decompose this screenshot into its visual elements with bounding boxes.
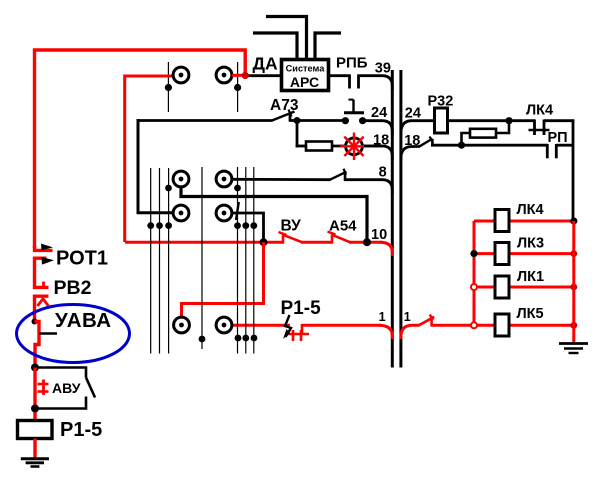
- svg-text:РП: РП: [548, 130, 568, 146]
- cam circle 2: [216, 67, 232, 83]
- node Р32-resistor junction: [505, 117, 512, 124]
- svg-text:ЛК1: ЛК1: [517, 269, 544, 285]
- node АВУ top dot: [31, 364, 39, 372]
- contact ВУ tick: [279, 232, 287, 235]
- wire red down to cam E: [182, 242, 264, 317]
- wire 18 into bus: [364, 146, 392, 160]
- wire РП right: [556, 144, 574, 147]
- wire cam F to Р1-5 contact red: [232, 324, 291, 327]
- contact 1-row riser red: [430, 317, 433, 326]
- svg-text:24: 24: [371, 105, 387, 121]
- coil Р32: [435, 108, 448, 133]
- node top-right dot: [234, 84, 241, 91]
- contact А54 riser: [331, 235, 334, 244]
- contact Р1-5 cross bar 2: [300, 330, 303, 341]
- thin controller line top-right: [237, 62, 239, 112]
- svg-text:Р32: Р32: [428, 93, 454, 109]
- wire to resistor: [296, 145, 307, 148]
- cam circle D: [216, 205, 232, 221]
- wire red top loop: [35, 50, 246, 248]
- contact РП bar 1: [546, 144, 549, 158]
- contact А54 tick: [328, 232, 336, 235]
- cam circle C: [173, 205, 189, 221]
- contact АВУ red crossbar 1: [38, 383, 49, 386]
- contact А73 blade: [272, 112, 295, 121]
- contact РОТ1 lower red: [35, 258, 49, 287]
- svg-text:АВУ: АВУ: [52, 380, 81, 396]
- contact РОТ1 arrow 2: [42, 257, 55, 265]
- contact 8 post: [344, 173, 347, 182]
- cam circle A: [173, 171, 189, 187]
- node АВУ bottom dot: [31, 405, 39, 413]
- contact А73 tick: [289, 110, 292, 117]
- resistor R2: [470, 129, 496, 138]
- wire Р1-5 to bus red: [302, 324, 381, 327]
- box U1 Система АРС: [282, 60, 329, 91]
- contact ЛК4 bar 2: [543, 120, 546, 136]
- antenna bar top: [266, 17, 307, 59]
- svg-text:1: 1: [379, 310, 386, 324]
- push-button actuator: [344, 111, 364, 114]
- coil ЛК3: [495, 243, 509, 265]
- wire 18 right exit: [401, 147, 420, 161]
- contact ВУ riser: [282, 235, 285, 244]
- node dots mid right: [234, 222, 241, 229]
- wire 8 row from cam: [231, 178, 331, 181]
- wire 24 into bus: [363, 121, 393, 135]
- contact ЛК4 bar 1: [533, 120, 536, 136]
- wire Р32 to ЛК4 contact: [447, 119, 535, 122]
- cam circle F: [216, 317, 232, 333]
- antenna bar mid-left: [253, 33, 297, 58]
- svg-text:39: 39: [375, 61, 391, 77]
- svg-text:24: 24: [405, 105, 421, 121]
- svg-text:ЛК4: ЛК4: [517, 202, 544, 218]
- wire ЛК4 to corner: [544, 121, 573, 222]
- resistor R1: [306, 142, 332, 151]
- wire А54 to bus red: [349, 241, 382, 244]
- push-button dots: [342, 117, 349, 124]
- wire 39 into bus: [358, 76, 393, 90]
- contact А73 post: [289, 113, 292, 122]
- svg-text:ДА: ДА: [253, 54, 278, 74]
- thin line mid L3: [168, 168, 170, 354]
- wire УАВА jog red: [35, 322, 40, 370]
- svg-text:ЛК5: ЛК5: [517, 306, 544, 322]
- contact ЛК4 crossbar: [529, 129, 550, 132]
- thin controller line top-left: [167, 62, 169, 112]
- ellipse УАВА blue: [17, 305, 130, 363]
- wire resistor2 right stub: [496, 121, 510, 133]
- contact Р32-18 tick: [430, 137, 433, 143]
- thin line mid R3: [253, 167, 255, 354]
- contact Р1-5 riser: [301, 324, 304, 334]
- lamp HL1 circle: [346, 138, 363, 155]
- node ЛК3 right: [570, 250, 577, 257]
- cam circle B: [216, 171, 232, 187]
- wire 8 into bus: [344, 180, 392, 194]
- wire red bus ЛК left: [473, 221, 476, 325]
- wire 1 into bus red: [379, 325, 392, 339]
- svg-text:Р1-5: Р1-5: [281, 298, 322, 319]
- wire А73 to node: [289, 119, 346, 122]
- wire red to cam 1: [125, 76, 173, 242]
- svg-text:8: 8: [379, 164, 387, 180]
- svg-text:Р1-5: Р1-5: [60, 419, 102, 441]
- svg-text:ВУ: ВУ: [281, 218, 302, 235]
- contact УАВА black tick: [39, 332, 57, 335]
- coil Р1-5: [18, 421, 53, 439]
- coil ЛК1 row wire: [474, 286, 574, 289]
- coil ЛК1: [495, 276, 509, 298]
- wire 1 right exit red: [401, 325, 420, 339]
- contact 8 tick: [344, 169, 347, 175]
- contact УАВА top: [35, 296, 49, 321]
- wire cam D to corner: [232, 213, 264, 240]
- svg-text:УАВА: УАВА: [55, 309, 112, 332]
- node wire196 junction: [363, 238, 371, 246]
- coil ЛК3 row wire: [474, 252, 574, 255]
- contact Р1-5 lower bar: [287, 333, 309, 336]
- wire resistor2 left stub: [462, 133, 471, 145]
- wire АВУ red main: [33, 368, 36, 422]
- node dots bottom right: [235, 335, 242, 342]
- wire cam A down stub: [181, 188, 367, 239]
- wire ВУ to А54 red: [301, 241, 333, 244]
- contact РПБ: [348, 75, 351, 89]
- node junction A73-resistor: [294, 117, 301, 124]
- wire resistor to lamp: [332, 145, 382, 148]
- svg-text:А54: А54: [329, 218, 357, 235]
- wire АВУ bypass bottom black: [35, 397, 86, 409]
- wire to ЛК5 red: [431, 324, 475, 327]
- thin line mid L2: [159, 168, 161, 354]
- ground left: [21, 459, 49, 467]
- node resistor2 junction: [458, 142, 465, 149]
- wire 24 right exit: [401, 121, 436, 135]
- svg-text:18: 18: [404, 133, 420, 149]
- svg-text:РОТ1: РОТ1: [56, 247, 108, 269]
- wire red bus ЛК right: [572, 221, 575, 343]
- cam D lever: [236, 202, 239, 220]
- contact 1-row blade red: [419, 317, 434, 326]
- svg-text:АРС: АРС: [290, 74, 319, 90]
- thin line mid L1: [150, 168, 152, 354]
- contact УАВА chevron: [38, 299, 49, 306]
- contact Р32-18 post: [431, 139, 434, 146]
- node ЛК3 left: [470, 250, 477, 257]
- contact АВУ red bar: [42, 380, 45, 396]
- svg-text:РПБ: РПБ: [336, 55, 368, 72]
- node ЛК5 left ring: [471, 322, 477, 328]
- thin line mid R1: [237, 167, 239, 354]
- svg-text:ЛК4: ЛК4: [526, 102, 553, 118]
- thin line mid center: [201, 167, 203, 349]
- node ЛК1 left ring: [471, 284, 477, 290]
- contact РП bar 2: [555, 144, 558, 158]
- node top-left dot: [165, 84, 172, 91]
- node dots mid left: [147, 222, 154, 229]
- svg-text:А73: А73: [270, 97, 299, 114]
- coil ЛК4: [495, 210, 509, 232]
- lamp HL1 red star: [340, 133, 368, 161]
- contact Р1-5 cross bar 1: [292, 330, 295, 341]
- contact 1-row tick red: [430, 315, 433, 321]
- coil ЛК5 row wire: [474, 324, 574, 327]
- node ЛК5 right: [570, 322, 577, 329]
- svg-text:10: 10: [371, 227, 387, 243]
- node ЛК1 right: [570, 284, 577, 291]
- cam circle 1: [173, 67, 189, 83]
- contact ВУ blade: [283, 235, 302, 242]
- svg-text:18: 18: [373, 133, 389, 149]
- node ЛК4 right: [570, 217, 577, 224]
- contact РВ2 tick: [42, 282, 45, 289]
- contact РОТ1 upper red: [35, 246, 53, 250]
- wire АВУ bypass top black: [35, 368, 86, 378]
- node dot cam B line: [234, 185, 241, 192]
- node cam D junction: [260, 238, 268, 246]
- svg-text:1: 1: [404, 310, 411, 324]
- contact А54 blade: [332, 235, 350, 242]
- bus line left: [391, 70, 394, 368]
- coil ЛК4 row wire: [474, 220, 574, 223]
- wire А73 row: [138, 119, 273, 122]
- cam circle E: [174, 317, 190, 333]
- wire ВУ row red: [125, 241, 284, 244]
- bus line right: [399, 70, 402, 368]
- svg-text:РВ2: РВ2: [54, 277, 92, 299]
- wire ДА to АРС: [248, 74, 281, 77]
- contact РОТ1 arrow 1: [41, 244, 53, 251]
- node УАВА dot: [32, 319, 38, 325]
- wire 10 into bus red: [380, 242, 392, 256]
- coil ЛК5: [495, 314, 509, 336]
- wire big L to cam C: [138, 119, 173, 213]
- thin line mid R2: [245, 167, 247, 354]
- wire АРС to РПБ: [328, 74, 351, 77]
- contact 8 blade: [330, 172, 347, 180]
- node ДА red dot: [242, 72, 249, 79]
- contact АВУ blade black: [86, 378, 95, 398]
- ground right: [559, 344, 588, 354]
- node dot cam A line: [165, 185, 172, 192]
- svg-text:Система: Система: [286, 64, 326, 74]
- contact Р32-18 blade: [419, 139, 433, 147]
- wire red through coil: [33, 439, 36, 460]
- contact АВУ red crossbar 2: [38, 390, 49, 393]
- wire red cam2 to ДА node: [232, 74, 247, 77]
- svg-text:ЛК3: ЛК3: [517, 235, 544, 251]
- wire resistor branch vertical: [296, 121, 299, 148]
- antenna bar mid-right: [315, 33, 341, 58]
- contact Р1-5 black bolt: [285, 315, 291, 337]
- node dot bottom center: [199, 336, 206, 343]
- wire 18 to РП: [431, 144, 548, 147]
